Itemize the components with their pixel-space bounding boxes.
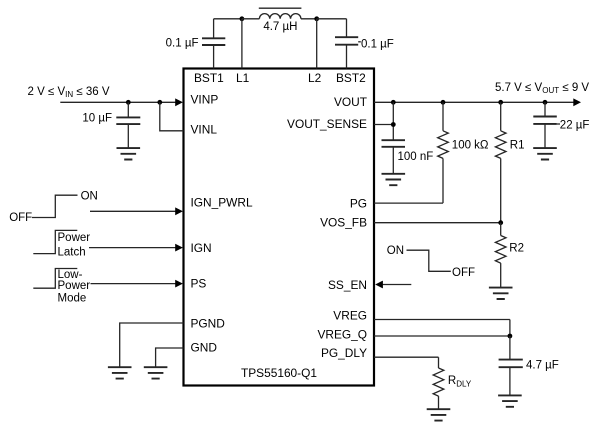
capacitor C2 0.1 uF (BST2) <box>335 37 394 68</box>
svg-text:PG_DLY: PG_DLY <box>321 346 367 360</box>
capacitor C1 0.1 uF (BST1) <box>166 19 226 69</box>
pin VINL <box>191 122 218 136</box>
svg-text:22 µF: 22 µF <box>560 120 590 132</box>
capacitor C3 10 uF <box>82 102 140 148</box>
svg-text:5.7 V ≤ VOUT ≤ 9 V: 5.7 V ≤ VOUT ≤ 9 V <box>495 82 589 95</box>
svg-text:Power: Power <box>58 232 91 244</box>
wire L2 node to C2 <box>317 19 347 37</box>
svg-text:0.1 µF: 0.1 µF <box>166 38 199 50</box>
wire VINL branch <box>160 102 184 131</box>
svg-text:R2: R2 <box>509 242 524 254</box>
node VOS_FB junction <box>498 220 503 225</box>
wire L1 pin <box>241 19 243 69</box>
inductor L1 4.7 uH <box>259 8 302 33</box>
ground below C6 <box>498 395 522 406</box>
pin BST2 <box>336 71 366 85</box>
svg-text:L1: L1 <box>236 71 250 85</box>
svg-text:4.7 µH: 4.7 µH <box>263 21 297 33</box>
svg-text:Mode: Mode <box>58 292 87 304</box>
svg-text:100 nF: 100 nF <box>398 151 434 163</box>
pin L1 <box>236 71 250 85</box>
op-amp U1 TPS55160-Q1 IC body <box>184 69 375 386</box>
wire L1 node to inductor <box>242 18 260 20</box>
wire PG <box>374 202 443 204</box>
wire VOUT with arrow <box>374 98 581 106</box>
resistor R2 <box>495 223 524 288</box>
wire VREG_Q <box>374 335 510 337</box>
ground below C4 <box>382 174 406 185</box>
pin PG <box>350 196 367 210</box>
node VIN junction at VINL branch <box>157 100 162 105</box>
wire IGN_PWRL with arrow <box>90 207 183 215</box>
ground GND <box>144 367 168 378</box>
svg-text:R1: R1 <box>510 140 525 152</box>
pin VOUT_SENSE <box>287 117 367 131</box>
svg-text:Low-: Low- <box>58 269 83 281</box>
node L2 junction <box>314 16 319 21</box>
node VOUT junction at R1 <box>498 100 503 105</box>
pin GND <box>191 341 218 355</box>
svg-text:10 µF: 10 µF <box>82 112 112 124</box>
wire PS with arrow <box>91 280 183 288</box>
pin VINP <box>191 92 219 106</box>
svg-text:0.1 µF: 0.1 µF <box>361 38 394 50</box>
wire VOS_FB <box>374 222 501 224</box>
ground below C3 <box>117 148 141 159</box>
svg-text:VINL: VINL <box>191 122 218 136</box>
pin IGN_PWRL <box>191 195 253 209</box>
capacitor C4 100 nF <box>382 140 434 173</box>
pin BST1 <box>194 71 224 85</box>
switch SW1 ON/OFF (IGN_PWRL) <box>9 190 98 224</box>
svg-text:BST1: BST1 <box>194 71 224 85</box>
svg-text:PS: PS <box>191 277 207 291</box>
pin SS_EN <box>328 278 367 292</box>
resistor RDLY <box>433 368 472 409</box>
wire L2 pin <box>316 19 318 69</box>
node VREG_Q junction <box>508 334 513 339</box>
wire VOUT_SENSE <box>374 102 393 140</box>
wire GND <box>156 348 184 367</box>
switch SW3 Low-Power Mode (PS) <box>33 269 90 305</box>
wire inductor to L2 node <box>301 18 317 20</box>
wire VREG <box>374 320 510 337</box>
svg-text:100 kΩ: 100 kΩ <box>452 140 489 152</box>
pin VOUT <box>334 95 367 109</box>
pin PGND <box>191 316 226 330</box>
svg-text:OFF: OFF <box>9 212 32 224</box>
svg-text:IGN: IGN <box>191 241 212 255</box>
wire SS_EN with arrow <box>375 281 411 289</box>
svg-text:IGN_PWRL: IGN_PWRL <box>191 195 253 209</box>
node VIN junction at C3 <box>126 100 131 105</box>
pin PG_DLY <box>321 346 367 360</box>
wire PG_DLY <box>374 357 439 368</box>
ground below R2 <box>489 288 513 299</box>
svg-text:VOUT: VOUT <box>334 95 367 109</box>
svg-text:SS_EN: SS_EN <box>328 278 367 292</box>
svg-text:ON: ON <box>81 190 98 202</box>
pin L2 <box>308 71 322 85</box>
svg-text:BST2: BST2 <box>336 71 366 85</box>
svg-text:L2: L2 <box>308 71 322 85</box>
pin IGN <box>191 241 212 255</box>
svg-text:OFF: OFF <box>452 267 475 279</box>
pin VREG_Q <box>317 327 367 341</box>
node VOUT junction at sense branch <box>391 100 396 105</box>
svg-text:PG: PG <box>350 196 367 210</box>
resistor R3 100 kOhm <box>438 102 489 203</box>
svg-text:PGND: PGND <box>191 316 226 330</box>
svg-text:VREG: VREG <box>333 308 367 322</box>
wire PGND <box>120 323 184 367</box>
ground below C5 <box>533 148 557 159</box>
svg-text:VOUT_SENSE: VOUT_SENSE <box>287 117 367 131</box>
switch SW4 ON/OFF (SS_EN) <box>387 245 475 279</box>
svg-text:VOS_FB: VOS_FB <box>320 216 367 230</box>
node VOUT junction at C5 <box>543 100 548 105</box>
svg-text:VINP: VINP <box>191 92 219 106</box>
svg-text:GND: GND <box>191 341 218 355</box>
wire IGN with arrow <box>89 244 183 252</box>
svg-text:ON: ON <box>387 245 404 257</box>
pin PS <box>191 277 207 291</box>
resistor R1 <box>495 102 524 222</box>
node VOUT junction at 100k <box>441 100 446 105</box>
svg-text:TPS55160-Q1: TPS55160-Q1 <box>241 366 317 380</box>
capacitor C6 4.7 uF <box>499 336 559 395</box>
pin VOS_FB <box>320 216 367 230</box>
svg-text:Power: Power <box>58 280 91 292</box>
ground PGND <box>108 367 132 378</box>
node VIN input label <box>28 86 110 99</box>
wire BST1 top to L1 node <box>214 18 242 20</box>
node VOUT output label <box>495 82 589 95</box>
svg-text:Latch: Latch <box>58 246 86 258</box>
svg-text:VREG_Q: VREG_Q <box>317 327 367 341</box>
svg-text:4.7 µF: 4.7 µF <box>526 359 559 371</box>
capacitor C5 22 uF <box>533 102 589 148</box>
node VOUT_SENSE junction <box>391 122 396 127</box>
switch SW2 Power Latch (IGN) <box>33 230 90 258</box>
pin VREG <box>333 308 367 322</box>
wire VIN to VINP with arrow <box>60 98 183 106</box>
node L1 junction <box>240 16 245 21</box>
ground below RDLY <box>427 409 451 420</box>
